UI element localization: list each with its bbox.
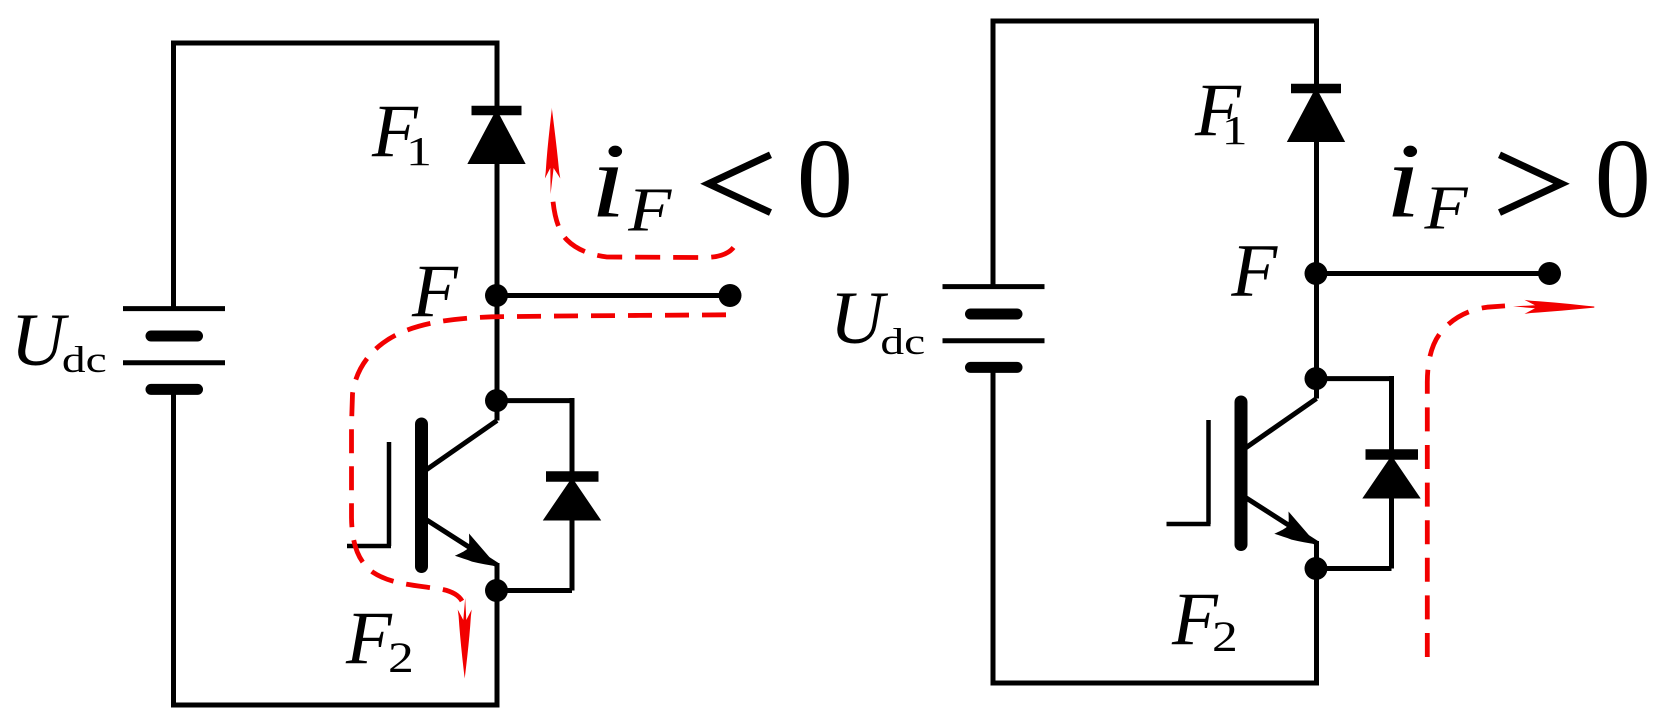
node: emitter junction dot [485,579,508,602]
red arrow down at F2 [458,598,472,679]
battery U_dc plate short thick 2 [151,384,198,395]
wire: diode branch to emitter node [497,588,573,593]
battery U_dc plate long top [123,306,225,311]
node: emitter junction dot (right) [1305,557,1328,580]
battery U_dc (right) plate long top [943,284,1045,289]
wire: F1 anode down through node F to IGBT collector stub [495,159,500,421]
red arrow up at F1 [545,108,560,195]
battery U_dc plate long middle [123,360,225,365]
wire: left circuit top loop (Udc+ to F1 cathode) [174,43,498,311]
red dashed current path: up along F1 then right (left circuit) [352,108,1595,679]
battery U_dc (right) plate long middle [943,338,1045,343]
wire: collector node to antiparallel diode branch (right) [1316,376,1392,381]
node F dot (right) [1305,262,1328,285]
svg-text:dc: dc [880,322,925,363]
transistor F2 (right) body bar [1235,402,1248,545]
diode F1 cathode bar [472,106,522,116]
transistor F2 gate lead [347,544,391,549]
transistor F2 body bar [415,424,428,567]
antiparallel diode cathode bar (right) [1366,449,1419,460]
antiparallel diode cathode bar [546,471,599,482]
svg-text:U: U [11,299,70,382]
svg-text:F: F [1230,230,1278,313]
red dashed current path: up outside diode branch to terminal (right circuit) [1427,306,1505,657]
wire: antiparallel diode branch lower segment [570,517,575,591]
node: collector junction dot [485,389,508,412]
less-than sign [709,155,771,213]
wire: antiparallel diode branch upper segment (right) [1389,376,1394,450]
battery U_dc (right) plate short thick 1 [971,309,1018,320]
antiparallel diode triangle [548,482,597,518]
transistor F2 gate electrode [387,442,392,546]
output terminal dot [719,284,742,307]
right circuit (translated copy) [943,21,1562,683]
node F dot [485,284,508,307]
wire: right circuit bottom loop [993,365,1317,683]
wire: F1 anode down through node F (right) [1314,137,1319,399]
wire: right circuit top loop [993,21,1317,289]
svg-text:2: 2 [388,635,414,682]
svg-text:dc: dc [62,340,107,381]
diode F1 (right) cathode bar [1291,84,1341,94]
svg-text:F: F [1423,173,1468,243]
battery U_dc (right) plate short thick 2 [971,362,1018,373]
greater-than sign [1500,155,1562,213]
transistor F2 (right) collector diagonal [1246,399,1317,449]
red dashed current path: from terminal around IGBT to bottom (left circuit) [352,315,727,601]
svg-text:1: 1 [1222,108,1248,154]
wire: output from node F to terminal (right) [1316,271,1550,276]
wire: antiparallel diode branch lower segment (right) [1389,495,1394,569]
transistor F2 (right) gate electrode [1206,420,1211,524]
red arrow right at terminal (right circuit) [1513,300,1594,314]
wire: antiparallel diode branch upper segment [570,398,575,472]
antiparallel diode triangle (right) [1367,460,1416,496]
battery U_dc plate short thick 1 [151,331,198,342]
wire: left circuit bottom loop (Udc- to F2 emitter) [174,387,498,705]
svg-text:F: F [627,175,672,245]
svg-text:i: i [590,121,626,240]
svg-text:F: F [345,597,393,680]
transistor F2 emitter arrowhead [455,534,498,567]
svg-text:2: 2 [1212,614,1238,661]
diode F1 (right) triangle [1291,93,1341,140]
output terminal dot (right) [1538,262,1561,285]
wire: emitter stub to bottom rail (right) [1314,541,1319,683]
transistor F2 collector diagonal [426,421,497,471]
wire: diode branch to emitter node (right) [1316,566,1392,571]
wire: emitter stub to bottom rail [495,563,500,705]
diode F1 triangle [472,115,522,162]
wire: output from node F to terminal [497,293,731,298]
transistor F2 emitter diagonal [426,520,497,566]
svg-text:0: 0 [797,117,854,242]
svg-text:i: i [1385,121,1421,240]
transistor F2 (right) gate lead [1167,522,1211,527]
transistor F2 (right) emitter arrowhead [1274,512,1317,545]
svg-text:1: 1 [406,129,432,175]
transistor F2 (right) emitter diagonal [1246,498,1317,544]
node: collector junction dot (right) [1305,367,1328,390]
svg-text:0: 0 [1595,117,1652,242]
wire: collector node to antiparallel diode branch [497,398,573,403]
svg-text:F: F [411,250,459,333]
